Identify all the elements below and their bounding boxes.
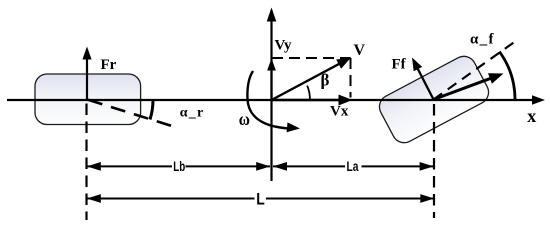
svg-text:Vy: Vy bbox=[275, 38, 292, 54]
Lb right arrowhead bbox=[256, 162, 270, 171]
L dimension line bbox=[87, 198, 255, 200]
dashed projection horizontal (V rectangle top) bbox=[272, 57, 351, 59]
Vy arrowhead bbox=[267, 59, 276, 71]
L right arrowhead bbox=[420, 194, 434, 203]
svg-text:x: x bbox=[527, 106, 536, 126]
front velocity bold arrow shaft bbox=[434, 78, 492, 99]
svg-text:La: La bbox=[347, 158, 359, 174]
svg-text:L: L bbox=[256, 190, 265, 209]
beta angle arc bbox=[307, 86, 310, 100]
x axis arrowhead bbox=[532, 95, 545, 105]
V velocity vector shaft bbox=[272, 63, 341, 100]
x axis line bbox=[7, 99, 533, 101]
svg-text:Lb: Lb bbox=[173, 158, 185, 174]
svg-text:α_r: α_r bbox=[180, 106, 205, 121]
Lb dimension line bbox=[87, 165, 172, 167]
front wheel (right tire body, steered) bbox=[375, 52, 493, 147]
L left arrowhead bbox=[87, 194, 101, 203]
Vy vector shaft bbox=[270, 62, 272, 100]
alpha_f angle arc bbox=[499, 52, 515, 100]
omega yaw-rate arc bbox=[247, 71, 288, 128]
rear velocity dashed line (slip direction) bbox=[88, 100, 175, 127]
y axis arrowhead bbox=[267, 8, 277, 22]
dashed projection vertical (V rectangle right) bbox=[350, 58, 352, 98]
omega arrowhead bbox=[287, 122, 300, 132]
La left arrowhead bbox=[273, 162, 287, 171]
Vx vector shaft bbox=[272, 99, 341, 102]
svg-text:β: β bbox=[321, 71, 330, 90]
Fr arrowhead bbox=[82, 47, 91, 60]
Vx arrowhead bbox=[339, 95, 353, 106]
front velocity arrowhead bbox=[488, 73, 504, 84]
V arrowhead bbox=[336, 58, 351, 69]
svg-text:Vx: Vx bbox=[330, 104, 349, 120]
alpha_r angle arc bbox=[150, 100, 153, 120]
La dimension line bbox=[273, 165, 345, 167]
svg-text:Ff: Ff bbox=[392, 57, 407, 73]
svg-text:ω: ω bbox=[239, 109, 250, 129]
y axis line (vertical through CG) bbox=[270, 10, 272, 181]
svg-text:α_f: α_f bbox=[470, 32, 495, 48]
svg-text:Fr: Fr bbox=[101, 57, 117, 73]
La right arrowhead bbox=[420, 162, 434, 171]
rear wheel (left tire body) bbox=[35, 74, 141, 125]
Ff force arrow shaft bbox=[417, 67, 434, 99]
front wheel heading dashed line bbox=[434, 41, 517, 100]
rear axle dashed vertical bbox=[85, 104, 87, 221]
Ff arrowhead bbox=[412, 58, 422, 72]
Lb left arrowhead bbox=[87, 162, 101, 171]
Fr force arrow shaft bbox=[86, 52, 88, 100]
front axle dashed vertical bbox=[433, 104, 435, 218]
svg-text:V: V bbox=[354, 42, 366, 59]
